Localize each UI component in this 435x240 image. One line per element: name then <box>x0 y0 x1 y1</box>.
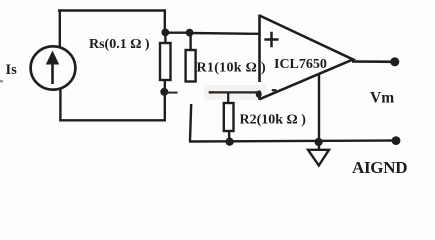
op-amp left edge lower segment <box>258 91 261 101</box>
node dot R2 bottom <box>226 138 234 146</box>
svg-text:ICL7650: ICL7650 <box>274 57 327 72</box>
wire up to Rs bottom node <box>164 91 166 122</box>
svg-text:AIGND: AIGND <box>352 158 407 177</box>
resistor Rs body <box>160 43 171 80</box>
faint haze around feedback wire <box>204 85 266 100</box>
svg-text:R2(10k Ω ): R2(10k Ω ) <box>240 113 307 128</box>
resistor R2 body <box>224 103 234 131</box>
wire top-right vertical <box>164 10 166 33</box>
wire op-amp to ground rail <box>318 75 320 150</box>
resistor R2 top lead <box>227 92 229 103</box>
op-amp U1 ICL7650 triangle top and bottom edges <box>260 16 354 100</box>
resistor R2 bottom lead <box>228 131 231 141</box>
node dot ground junction <box>315 138 323 146</box>
left edge scan mark <box>0 80 3 83</box>
wire feedback red scan tint at start <box>209 91 213 93</box>
svg-text:Rs(0.1 Ω ): Rs(0.1 Ω ) <box>89 37 150 52</box>
wire op-amp output <box>352 60 394 63</box>
wire top horizontal <box>58 9 166 11</box>
node dot Rs bottom <box>160 88 168 96</box>
resistor R1 top lead <box>189 33 191 50</box>
wire bottom-left horizontal <box>59 119 166 121</box>
resistor Rs top lead <box>164 31 166 43</box>
output terminal dot <box>390 57 399 66</box>
wire feedback horizontal to - input <box>209 91 259 93</box>
resistor Rs bottom lead <box>164 80 166 91</box>
node B dot <box>186 29 194 37</box>
current source arrowhead <box>46 51 59 65</box>
wire fragment right of Rs bottom node <box>167 92 178 94</box>
svg-text:Vm: Vm <box>370 90 394 107</box>
node A dot <box>161 29 169 37</box>
junction blob at - input <box>256 91 262 98</box>
current source arrow shaft <box>51 61 54 84</box>
wire R1 lower lead (with scan gap) <box>190 104 191 141</box>
op-amp - input sign <box>272 89 277 91</box>
wire bottom rail <box>189 141 396 142</box>
op-amp left edge upper segment <box>258 15 261 83</box>
resistor R1 body <box>186 50 196 82</box>
wire left vertical <box>59 10 61 49</box>
svg-text:Is: Is <box>6 62 18 78</box>
current source Is circle <box>31 46 76 89</box>
rail end terminal dot <box>392 136 401 145</box>
op-amp + input sign <box>264 32 278 47</box>
wire node A to node B <box>165 32 190 34</box>
wire current source bottom lead <box>59 90 61 122</box>
svg-text:R1(10k Ω ): R1(10k Ω ) <box>197 61 266 76</box>
wire to op-amp + input <box>190 32 259 35</box>
ground symbol AIGND <box>308 150 329 166</box>
